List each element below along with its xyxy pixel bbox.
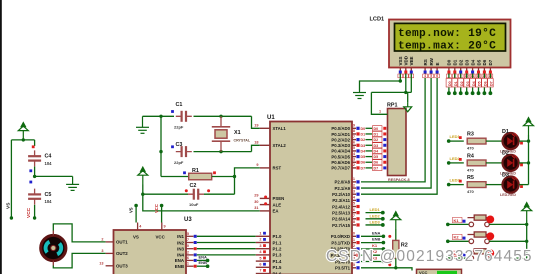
- node LED2: [381, 217, 385, 221]
- LCD pin number 10: [464, 74, 469, 78]
- wire motor+ to OUT1: [53, 224, 105, 242]
- sheet left border: [0, 0, 2, 274]
- pin state square P3.5/T1: [356, 266, 359, 269]
- resistor R1: [189, 173, 212, 180]
- svg-text:1: 1: [379, 110, 381, 114]
- svg-text:25: 25: [351, 202, 355, 206]
- pin state square P1.3: [263, 250, 266, 253]
- pin state square LED3: [459, 180, 462, 183]
- junction RST node: [233, 175, 236, 178]
- svg-text:X1: X1: [234, 130, 241, 136]
- wire LCD VEE down: [410, 74, 412, 93]
- svg-text:P2.2/A10: P2.2/A10: [332, 192, 351, 197]
- wire keys VCC rail: [526, 220, 528, 258]
- power VCC terminal (left): [18, 123, 28, 140]
- svg-text:11: 11: [351, 238, 355, 242]
- junction D2/rail: [527, 161, 530, 164]
- wire LCD VSS to ground: [360, 74, 401, 91]
- wire LED3 to R5: [449, 184, 464, 186]
- pin state square RP1 D3: [383, 144, 386, 147]
- wire into XTAL2 pin: [252, 145, 260, 151]
- svg-text:LED3: LED3: [450, 178, 461, 183]
- svg-text:26: 26: [351, 208, 355, 212]
- pin state square P0.1/AD1: [356, 132, 359, 135]
- LCD pin D3 stub: [466, 68, 468, 71]
- svg-text:P0.6/AD6: P0.6/AD6: [331, 160, 350, 165]
- U3 pin OUT3 stub (pin 13): [106, 265, 114, 267]
- node K1 (U1 side): [382, 247, 386, 251]
- pin state square LED2: [459, 158, 462, 161]
- svg-text:D7: D7: [374, 166, 379, 170]
- svg-text:R4: R4: [467, 153, 474, 159]
- net label D2 (RP1 side): [373, 137, 383, 142]
- wire K2 to rail: [489, 240, 527, 242]
- U1 pin RST stub (pin 9): [260, 167, 270, 169]
- svg-text:RS: RS: [423, 59, 428, 65]
- wire P2.0 to LCD control (vertical x=425.1): [361, 73, 425, 182]
- LCD pin number 3: [409, 74, 414, 78]
- wire VDD/VEE bus: [371, 91, 411, 93]
- node D2: [459, 91, 463, 95]
- wire P3.2 K1 stub: [361, 248, 383, 250]
- U1 pin P1.4 stub (pin 5): [256, 260, 270, 262]
- node D7: [489, 91, 493, 95]
- svg-text:D6: D6: [484, 81, 488, 86]
- capacitor C5: [28, 189, 41, 205]
- net node K2: [446, 240, 450, 244]
- svg-text:ENB: ENB: [175, 264, 184, 269]
- wire LCD D7 upper: [489, 74, 491, 79]
- LCD pin number 7: [447, 74, 452, 78]
- U1 pin P2.3/A11 stub (pin 24): [352, 199, 356, 201]
- svg-text:C1: C1: [176, 102, 183, 108]
- svg-text:LED2: LED2: [450, 156, 461, 161]
- svg-text:C4: C4: [45, 154, 52, 160]
- pin state square: [29, 181, 32, 184]
- pin state square K3: [463, 253, 466, 256]
- wire LCD D2 lower: [460, 87, 462, 92]
- pin state square P2.4/A12: [356, 205, 359, 208]
- svg-text:29: 29: [254, 194, 258, 198]
- svg-text:D3: D3: [466, 81, 470, 86]
- svg-text:10uF: 10uF: [189, 202, 199, 207]
- pin state dot R2 bottom: [388, 263, 391, 266]
- node ENA: [206, 259, 210, 263]
- svg-text:33: 33: [351, 157, 355, 161]
- svg-text:VCC: VCC: [26, 207, 32, 218]
- net label D4 (LCD side): [470, 79, 476, 88]
- U1 pin P1.6 stub (pin 7): [256, 273, 270, 274]
- pin state dot PSEN: [264, 196, 267, 199]
- svg-text:7: 7: [259, 269, 261, 273]
- wire LED1 to R3: [449, 140, 464, 142]
- svg-text:IN2: IN2: [177, 240, 184, 245]
- svg-text:D1: D1: [374, 132, 379, 136]
- junction C1/C3 column top: [159, 115, 162, 118]
- net label D1 (LCD side): [452, 79, 458, 88]
- svg-text:D0: D0: [448, 81, 452, 86]
- svg-text:temp.now: 19°C: temp.now: 19°C: [398, 28, 496, 40]
- svg-text:P3.5/T1: P3.5/T1: [335, 266, 351, 271]
- pin state dot ALE: [264, 202, 267, 205]
- pin state square P3.1/TXD: [356, 241, 359, 244]
- node VCC rail end: [33, 216, 36, 219]
- svg-text:39: 39: [351, 124, 355, 128]
- svg-text:P2.1/A9: P2.1/A9: [334, 186, 350, 191]
- LED D3: [503, 177, 519, 193]
- LCD1 screen: [395, 23, 506, 51]
- svg-text:P2.4/A12: P2.4/A12: [332, 204, 351, 209]
- U1 pin P3.1/TXD stub (pin 11): [352, 242, 356, 244]
- junction crystal top: [219, 115, 222, 118]
- net node K1: [446, 223, 450, 227]
- terminal VS: [135, 207, 137, 223]
- svg-text:7: 7: [187, 238, 189, 242]
- LCD pin D5 stub: [478, 68, 480, 71]
- svg-text:P2.6/A14: P2.6/A14: [332, 217, 351, 222]
- pin state square RP1 D4: [383, 149, 386, 152]
- svg-text:13: 13: [99, 261, 103, 265]
- svg-text:470: 470: [467, 146, 474, 151]
- svg-text:P0.1/AD1: P0.1/AD1: [331, 132, 350, 137]
- pin state square IN2: [194, 241, 197, 244]
- svg-text:RESPACK-8: RESPACK-8: [388, 178, 410, 182]
- wire K1 to rail: [489, 223, 527, 225]
- push button K1: [468, 215, 491, 227]
- svg-text:ENB: ENB: [199, 260, 208, 265]
- capacitor C2: [188, 189, 204, 200]
- node D1: [453, 91, 457, 95]
- U3 pin IN2 stub (pin 7): [186, 242, 194, 244]
- wire P0.6 to RP1: [366, 161, 373, 163]
- svg-text:3: 3: [259, 244, 261, 248]
- U1 chip body: [270, 122, 352, 274]
- capacitor C4: [28, 150, 41, 166]
- wire LCD D2 upper: [460, 74, 462, 79]
- svg-text:K1: K1: [454, 218, 460, 223]
- ground (left rail): [66, 176, 79, 190]
- pin state square IN3: [194, 247, 197, 250]
- pin state square C4 top: [32, 145, 35, 148]
- svg-text:D3: D3: [361, 144, 366, 148]
- svg-text:1: 1: [259, 232, 261, 236]
- svg-text:D5: D5: [478, 81, 482, 86]
- pin state square C3: [171, 145, 174, 148]
- svg-text:D7: D7: [361, 166, 366, 170]
- wire LED VCC rail: [528, 135, 530, 185]
- svg-text:P1.5: P1.5: [273, 265, 282, 270]
- LCD pin RS stub: [424, 68, 426, 71]
- node D6: [483, 91, 487, 95]
- svg-text:P1.1: P1.1: [273, 240, 282, 245]
- pin state square P1.2: [263, 244, 266, 247]
- net label D2 (LCD side): [458, 79, 464, 88]
- svg-text:IN4: IN4: [177, 253, 184, 258]
- node LED1: [381, 211, 385, 215]
- wire LCD D3 lower: [466, 87, 468, 92]
- wire D3 to VCC rail: [519, 184, 529, 186]
- wire LCD D6 lower: [483, 87, 485, 92]
- U1 pin P0.3/AD3 stub (pin 36): [352, 144, 356, 146]
- node ENA (U1 side): [382, 235, 386, 239]
- svg-text:2: 2: [259, 238, 261, 242]
- svg-text:E: E: [435, 62, 440, 65]
- svg-text:22pF: 22pF: [174, 125, 184, 130]
- net node LED2: [447, 161, 451, 165]
- pin state square C1: [171, 110, 174, 113]
- net label D4 (RP1 side): [373, 148, 383, 153]
- svg-text:ALE: ALE: [273, 202, 282, 207]
- svg-text:12: 12: [185, 250, 189, 254]
- pin state square LCD D4: [471, 71, 474, 74]
- pin state square RP1 D5: [383, 155, 386, 158]
- U1 pin P0.7/AD7 stub (pin 32): [352, 167, 356, 169]
- pin state square RP1 D6: [383, 161, 386, 164]
- pin state square P2.2/A10: [356, 193, 359, 196]
- svg-text:6: 6: [436, 74, 438, 78]
- svg-text:D3: D3: [502, 172, 509, 178]
- svg-text:10: 10: [185, 244, 189, 248]
- wire VCC down to EA row: [143, 194, 260, 211]
- svg-text:P2.0/A8: P2.0/A8: [334, 180, 350, 185]
- pin state square P2.1/A9: [356, 186, 359, 189]
- net label K2: [453, 234, 463, 239]
- pin state square P2.6/A14: [356, 217, 359, 220]
- wire K2 to button: [448, 240, 469, 242]
- net label D1 (RP1 side): [373, 131, 383, 136]
- wire P0.1 to RP1: [366, 133, 373, 135]
- svg-text:OUT2: OUT2: [116, 251, 128, 256]
- junction VDD: [404, 91, 407, 94]
- U1 pin P0.0/AD0 stub (pin 39): [352, 127, 356, 129]
- wire LCD D6 upper: [483, 74, 485, 79]
- junction VSS: [399, 79, 402, 82]
- U1 pin P1.3 stub (pin 4): [256, 254, 270, 256]
- pin state square RP1 D1: [383, 132, 386, 135]
- resistor pack RP1 body: [388, 109, 407, 176]
- pin state square P2.0/A8: [356, 180, 359, 183]
- svg-text:D1: D1: [454, 81, 458, 86]
- svg-text:VCC: VCC: [156, 235, 166, 240]
- button actuator K1: [486, 216, 494, 224]
- resistor R4: [467, 160, 486, 166]
- pin state square P1.6: [263, 269, 266, 272]
- LCD pin number 6: [435, 74, 440, 78]
- wire D2 to VCC rail: [519, 162, 529, 164]
- node VS rail end: [10, 216, 13, 219]
- net label D7 (LCD side): [488, 79, 494, 88]
- motor bottom pin stub: [52, 261, 54, 266]
- U1 pin P2.5/A13 stub (pin 26): [352, 212, 356, 214]
- pin state square P1.4: [263, 257, 266, 260]
- svg-text:VS: VS: [6, 202, 12, 209]
- pin state square LED1: [459, 136, 462, 139]
- pin state square ENA: [194, 259, 197, 262]
- pin state square LCD D7: [489, 71, 492, 74]
- svg-text:R3: R3: [467, 132, 474, 138]
- pin state square LCD D5: [477, 71, 480, 74]
- U1 pin P3.3/INT1 stub (pin 13): [352, 254, 356, 256]
- node ENB: [206, 264, 210, 268]
- wire R1 right to RST node: [212, 176, 235, 178]
- LCD pin RW stub: [430, 68, 432, 71]
- svg-text:VDD: VDD: [404, 55, 409, 65]
- LCD pin number 9: [458, 74, 463, 78]
- pin state dot C2 left: [185, 189, 188, 192]
- pin state square LCD VSS: [399, 71, 402, 74]
- wire P2.2 to LCD control (vertical x=437.1): [361, 73, 437, 194]
- svg-text:RW: RW: [429, 57, 434, 65]
- svg-text:5: 5: [430, 74, 432, 78]
- svg-text:D6: D6: [374, 161, 379, 165]
- pin state dot R2 top: [388, 235, 391, 238]
- net label D0 (LCD side): [446, 79, 452, 88]
- svg-text:P1.3: P1.3: [273, 253, 282, 258]
- svg-text:D0: D0: [447, 59, 452, 65]
- svg-text:11: 11: [185, 262, 189, 266]
- node D0: [447, 91, 451, 95]
- wire P3.3 K2 stub: [361, 254, 383, 256]
- svg-text:470: 470: [467, 189, 474, 194]
- wire ENB stub: [197, 265, 208, 267]
- push button K3: [468, 249, 491, 261]
- net label D0 (RP1 side): [373, 126, 383, 131]
- svg-text:LED2: LED2: [370, 213, 381, 218]
- pin state square K1: [463, 220, 466, 223]
- wire VCC-rail top horizontal: [11, 139, 34, 141]
- LCD pin D2 stub: [460, 68, 462, 71]
- pin state square LCD E: [436, 71, 439, 74]
- pin state square RP1 D0: [383, 127, 386, 130]
- power terminal (LCD contrast): [404, 103, 412, 112]
- pin state square RP1 D2: [383, 138, 386, 141]
- svg-text:C3: C3: [176, 142, 183, 148]
- U1 pin P0.2/AD2 stub (pin 37): [352, 139, 356, 141]
- wire into XTAL1 pin: [252, 116, 260, 128]
- net node LED1: [447, 139, 451, 143]
- svg-text:C5: C5: [45, 192, 52, 198]
- svg-text:D5: D5: [476, 59, 481, 65]
- ground (LCD): [353, 91, 366, 99]
- svg-text:OUT1: OUT1: [116, 240, 128, 245]
- junction at VCC terminal: [22, 138, 25, 141]
- LCD pin D4 stub: [472, 68, 474, 71]
- svg-text:P2.3/A11: P2.3/A11: [332, 198, 350, 203]
- svg-text:P0.7/AD7: P0.7/AD7: [331, 166, 350, 171]
- node D5: [477, 91, 481, 95]
- pin state square P3.2/INT0: [356, 247, 359, 250]
- svg-text:P1.4: P1.4: [273, 259, 282, 264]
- svg-text:D0: D0: [374, 127, 379, 131]
- U3 pin VS stub (pin 4): [137, 223, 139, 231]
- pin state dot C2 right: [207, 189, 210, 192]
- pin state square P2.3/A11: [356, 199, 359, 202]
- svg-text:D7: D7: [490, 81, 494, 86]
- wire P2.7 LED3 stub: [366, 224, 383, 226]
- svg-text:ENA: ENA: [372, 230, 381, 235]
- svg-text:D1: D1: [502, 129, 509, 135]
- svg-text:27: 27: [351, 214, 355, 218]
- wire LCD D3 upper: [466, 74, 468, 79]
- net label D6 (LCD side): [482, 79, 488, 88]
- svg-text:D3: D3: [374, 144, 379, 148]
- svg-text:R1: R1: [192, 168, 199, 174]
- LCD pin D1 stub: [454, 68, 456, 71]
- svg-text:3: 3: [101, 249, 103, 253]
- net label D3 (LCD side): [464, 79, 470, 88]
- svg-text:D0: D0: [361, 127, 366, 131]
- resistor R2: [393, 240, 399, 258]
- temperature sensor U2 DS18B20 (cut off at bottom): [417, 269, 462, 274]
- svg-text:ENB: ENB: [372, 237, 381, 242]
- svg-text:D4: D4: [470, 59, 475, 65]
- pin state square LCD D3: [465, 71, 468, 74]
- LCD pin E stub: [436, 68, 438, 71]
- pin state square P0.6/AD6: [356, 161, 359, 164]
- svg-text:LED1: LED1: [450, 134, 461, 139]
- U3 pin IN1 stub (pin 5): [186, 235, 194, 237]
- wire P0.2 to RP1: [366, 139, 373, 141]
- LCD pin number 8: [452, 74, 457, 78]
- resistor R5: [467, 182, 486, 188]
- U1 pin P1.0 stub (pin 1): [256, 235, 270, 237]
- wire VS rail vertical: [10, 140, 12, 217]
- svg-text:C2: C2: [190, 183, 197, 189]
- pin state square P0.5/AD5: [356, 155, 359, 158]
- node D3: [465, 91, 469, 95]
- U1 pin P3.5/T1 stub (pin 15): [352, 267, 356, 269]
- wire LCD D1 lower: [454, 87, 456, 92]
- node K2 (U1 side): [382, 253, 386, 257]
- svg-text:D2: D2: [460, 81, 464, 86]
- U1 pin P1.1 stub (pin 2): [256, 242, 270, 244]
- pin state square LCD RS: [424, 71, 427, 74]
- net label D6 (RP1 side): [373, 160, 383, 165]
- junction VCC/C2/EA: [141, 193, 144, 196]
- junction crystal bottom: [219, 150, 222, 153]
- wire K3 to rail: [489, 257, 527, 259]
- button actuator K2: [486, 232, 494, 240]
- U1 pin P1.5 stub (pin 6): [256, 266, 270, 268]
- wire C4 column vertical: [34, 140, 36, 146]
- pin state square LCD D1: [453, 71, 456, 74]
- svg-text:P0.4/AD4: P0.4/AD4: [331, 149, 350, 154]
- svg-text:XTAL2: XTAL2: [273, 143, 287, 148]
- wire R1 left lead: [161, 176, 189, 178]
- svg-text:D2: D2: [502, 151, 509, 157]
- node D4: [471, 91, 475, 95]
- power VCC terminal (keys): [522, 203, 532, 220]
- net label K1: [453, 217, 463, 222]
- pin state square RP1 D7: [383, 166, 386, 169]
- pin state square D1: [520, 142, 523, 145]
- svg-text:P1.0: P1.0: [273, 234, 282, 239]
- svg-text:30: 30: [254, 200, 258, 204]
- pin state square P3.4/T0: [356, 260, 359, 263]
- pin state square P1.5: [263, 263, 266, 266]
- svg-text:LED1: LED1: [370, 207, 381, 212]
- svg-text:21: 21: [351, 177, 355, 181]
- svg-text:9: 9: [256, 163, 258, 167]
- wire R5 to D3: [486, 184, 502, 186]
- LCD pin number 11: [470, 74, 475, 78]
- svg-text:104: 104: [45, 161, 53, 166]
- wire LCD D5 lower: [478, 87, 480, 92]
- svg-text:LCD1: LCD1: [370, 17, 385, 23]
- node K3 (U1 side): [382, 260, 386, 264]
- pin state square C5 top: [29, 169, 32, 172]
- svg-text:2: 2: [101, 237, 103, 241]
